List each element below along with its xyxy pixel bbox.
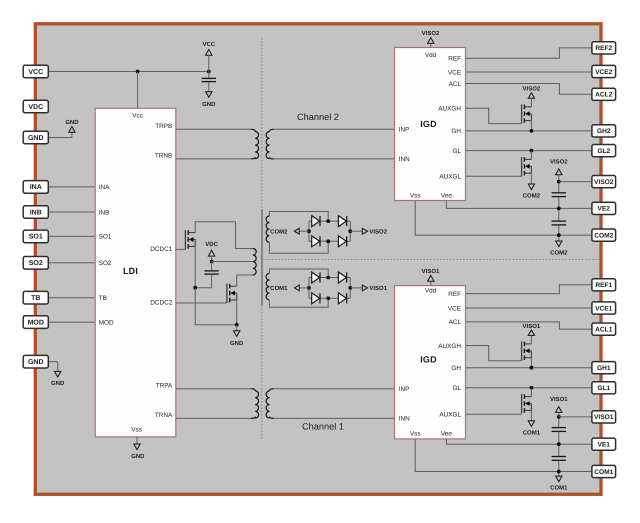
wire VCC to LDI Vcc pin: [137, 72, 139, 109]
junction VDC center tap: [210, 260, 214, 264]
ground symbol COM1 below C6: [550, 476, 568, 492]
capacitor C2 (VDC): [195, 262, 219, 288]
junction bridge2 VISO2 node: [348, 229, 352, 233]
svg-text:ACL: ACL: [449, 81, 462, 88]
svg-text:COM1: COM1: [594, 469, 613, 476]
svg-text:REF1: REF1: [595, 282, 612, 289]
wire Vee to VE2: [446, 201, 592, 209]
svg-text:TRPA: TRPA: [156, 382, 173, 389]
wire GH to GH1: [466, 367, 592, 369]
junction VISO2 rail: [557, 180, 561, 184]
svg-text:Channel 2: Channel 2: [297, 112, 339, 122]
wire bridge 1 top row: [309, 277, 350, 279]
wire bridge 1 bottom row: [309, 297, 350, 299]
svg-text:GND: GND: [230, 340, 244, 347]
svg-text:VISO1: VISO1: [422, 268, 440, 275]
pin GL1 (right terminal y=387.8): [592, 382, 616, 394]
wire SO2: [48, 262, 95, 264]
svg-text:VDC: VDC: [205, 241, 218, 248]
svg-text:VISO2: VISO2: [594, 179, 614, 186]
pin REF2 (right terminal y=47.9): [592, 42, 616, 54]
wire T1 sec1 top to bridge: [269, 269, 328, 278]
label Channel 1: [302, 422, 344, 432]
wire T3 to IGD INP (channel 1): [274, 388, 395, 390]
svg-text:COM1: COM1: [270, 285, 288, 292]
label Channel 2: [297, 112, 339, 122]
junction VE2 rail: [557, 207, 561, 211]
pin COM2 (right terminal y=235.1): [592, 229, 616, 241]
svg-text:VISO2: VISO2: [550, 158, 568, 165]
pin GH2 (right terminal y=130.9): [592, 125, 616, 137]
capacitor C6 (VE1-COM1): [552, 457, 566, 461]
svg-text:Vss: Vss: [410, 192, 421, 199]
junction Q4 drain / GL2: [530, 149, 534, 153]
pin MOD (left terminal y=322.1): [23, 316, 48, 329]
svg-text:GND: GND: [131, 453, 145, 460]
diode D7: [312, 293, 320, 304]
svg-text:Vcc: Vcc: [132, 112, 143, 119]
svg-text:INN: INN: [399, 416, 410, 423]
pin VE2 (right terminal y=208.4): [592, 202, 616, 214]
wire VDC to T1 center tap: [212, 261, 253, 263]
wire GL to GL2: [466, 150, 592, 152]
ground symbol below LDI Vss: [131, 444, 145, 460]
wire DCDC2 gate: [176, 302, 227, 304]
pin INA (left terminal y=186.9): [23, 181, 48, 194]
wire C5 to VE1 rail: [558, 432, 560, 457]
net arrow VISO2 (bridge 2 positive output): [350, 228, 387, 235]
svg-text:SO1: SO1: [99, 234, 112, 241]
svg-text:DCDC1: DCDC1: [150, 246, 172, 253]
wire TRPB: [176, 128, 251, 130]
device boundary (gate driver package outline): [35, 24, 601, 495]
svg-text:Vdd: Vdd: [425, 52, 437, 59]
svg-text:GH: GH: [451, 128, 461, 135]
svg-text:VISO1: VISO1: [369, 285, 387, 292]
junction bridge2 COM2 node: [307, 229, 311, 233]
ground symbol COM2 below C4: [550, 241, 568, 257]
pin GND (left terminal y=137.5): [23, 131, 48, 144]
svg-text:IGD: IGD: [420, 355, 437, 365]
svg-text:GL: GL: [452, 148, 461, 155]
svg-text:INN: INN: [399, 156, 410, 163]
pin VE1 (right terminal y=444.2): [592, 438, 616, 450]
transistor Q1 (push-pull high): [185, 230, 195, 249]
junction bridge1 COM1 node: [307, 286, 311, 290]
capacitor C5 (VISO1-VE1): [552, 428, 566, 432]
wire VISO1 rail upper: [558, 412, 560, 427]
VISO2 power symbol at Q3: [523, 86, 541, 99]
transformer T1 primary: [253, 249, 256, 275]
diode D5: [312, 272, 320, 283]
pin GL2 (right terminal y=150.6): [592, 145, 616, 157]
svg-text:GND: GND: [65, 119, 79, 126]
svg-text:COM2: COM2: [523, 193, 541, 200]
wire VCE (channel 2): [466, 71, 592, 73]
wire Q3 drain to VISO2: [530, 98, 532, 107]
svg-text:VCC: VCC: [28, 69, 43, 76]
svg-text:GH: GH: [451, 365, 461, 372]
svg-text:REF2: REF2: [595, 45, 612, 52]
diode D1: [312, 216, 320, 227]
wire bridge 1 right leg: [349, 278, 351, 299]
svg-text:Vee: Vee: [441, 192, 452, 199]
svg-text:VE2: VE2: [598, 206, 611, 213]
junction VCC/LDI Vcc: [136, 70, 140, 74]
ground symbol below C1: [202, 92, 216, 108]
wire bridge 2 top row: [309, 220, 350, 222]
svg-text:COM2: COM2: [550, 250, 568, 257]
wire TRPA: [176, 388, 251, 390]
transistor Q5 (AUXGH channel 1): [522, 341, 532, 360]
wire VCE (channel 1): [466, 307, 592, 309]
wire REF (channel 1): [466, 285, 592, 294]
wire T1 sec2 bottom to bridge: [269, 241, 328, 253]
svg-text:GND: GND: [202, 101, 216, 108]
junction C2/ground rail: [193, 286, 197, 290]
svg-text:TRNB: TRNB: [155, 153, 172, 160]
transformer T2 primary (channel 2): [251, 129, 259, 159]
svg-text:TB: TB: [31, 295, 40, 302]
VISO2 power symbol at C3: [550, 158, 568, 174]
svg-text:COM2: COM2: [270, 229, 288, 236]
wire VISO2 to pin box: [559, 181, 592, 183]
wire REF (channel 2): [466, 48, 592, 58]
wire GL to GL1: [466, 387, 592, 389]
svg-text:MOD: MOD: [28, 319, 44, 326]
svg-text:VCC: VCC: [202, 41, 215, 48]
pin VCE2 (right terminal y=71.5): [592, 65, 616, 77]
junction bridge2 AC top: [326, 219, 330, 223]
pin GH1 (right terminal y=367.7): [592, 362, 616, 374]
transistor Q6 (AUXGL channel 1): [522, 394, 532, 413]
wire Vee to VE1: [446, 439, 592, 444]
VCC power symbol: [202, 41, 215, 72]
wire T1 primary bottom to Q2 drain: [237, 275, 253, 286]
junction VE1 rail: [557, 442, 561, 446]
wire Vss to COM2: [415, 201, 592, 236]
svg-text:GND: GND: [28, 359, 44, 366]
wire bridge 2 left leg: [308, 221, 310, 241]
ground symbol GND (top left): [65, 119, 79, 132]
svg-text:INA: INA: [30, 184, 42, 191]
svg-text:VISO1: VISO1: [550, 396, 568, 403]
svg-text:REF: REF: [448, 56, 461, 63]
svg-text:TB: TB: [99, 295, 107, 302]
svg-text:VDC: VDC: [28, 104, 43, 111]
wire C6 to COM1 rail: [558, 461, 560, 477]
diode D6: [338, 272, 346, 283]
svg-text:VE1: VE1: [598, 442, 611, 449]
svg-text:GL2: GL2: [597, 148, 610, 155]
wire GND pin to ground: [48, 132, 72, 137]
svg-text:ACL1: ACL1: [595, 326, 613, 333]
wire LDI Vss to ground: [136, 437, 138, 444]
svg-text:DCDC2: DCDC2: [150, 300, 172, 307]
junction VISO1 rail: [557, 415, 561, 419]
wire DCDC1 gate: [176, 248, 186, 250]
svg-text:GH1: GH1: [597, 365, 611, 372]
wire GH to GH2: [466, 130, 592, 132]
VISO1 power symbol at Q5: [523, 323, 541, 336]
channel separator (horizontal dotted): [262, 259, 601, 261]
wire Q5 source to GH: [530, 358, 532, 368]
svg-text:ACL: ACL: [449, 319, 462, 326]
pin VCE1 (right terminal y=308.0): [592, 302, 616, 314]
junction Q5 source / GH1: [530, 366, 534, 370]
svg-text:GND: GND: [51, 380, 65, 387]
svg-text:VISO1: VISO1: [594, 414, 614, 421]
wire Q1 source to ground rail: [194, 246, 196, 287]
wire VISO1 to pin box: [559, 416, 592, 418]
svg-text:INA: INA: [99, 184, 110, 191]
net arrow COM2 (bridge 2 negative output): [270, 228, 309, 235]
svg-text:COM2: COM2: [594, 232, 613, 239]
svg-text:INP: INP: [399, 386, 410, 393]
wire AUXGH (channel 2): [466, 108, 522, 123]
diode D2: [338, 216, 346, 227]
pin SO2 (left terminal y=262.8): [23, 257, 48, 270]
transformer T3 secondary (channel 1): [266, 389, 274, 419]
wire T2 to IGD INN (channel 2): [274, 158, 395, 160]
transistor Q3 (AUXGH channel 2): [522, 104, 532, 123]
pin TB (left terminal y=297.7): [23, 291, 48, 304]
svg-text:Vss: Vss: [131, 426, 142, 433]
svg-text:AUXGL: AUXGL: [439, 174, 461, 181]
wire MOD: [48, 321, 95, 323]
wire Q3 source to GH: [530, 121, 532, 131]
wire C3 to VE2 rail: [558, 197, 560, 221]
pin ACL2 (right terminal y=94.3): [592, 88, 616, 100]
svg-text:GH2: GH2: [597, 128, 611, 135]
svg-text:INB: INB: [30, 209, 42, 216]
junction Q3 source / GH2: [530, 129, 534, 133]
diode D8: [338, 293, 346, 304]
pin SO1 (left terminal y=236.4): [23, 230, 48, 243]
pin VCC (left terminal y=71.5): [23, 65, 48, 78]
transistor Q4 (AUXGL channel 2): [522, 157, 532, 176]
svg-text:REF: REF: [448, 291, 461, 298]
svg-text:VISO2: VISO2: [523, 86, 541, 93]
ground symbol COM1 at Q6: [523, 421, 541, 437]
svg-text:Vss: Vss: [410, 431, 421, 438]
wire ACL (channel 2): [466, 84, 592, 95]
wire Q4 drain to GL: [530, 151, 532, 160]
pin VISO1 (right terminal y=416.9): [592, 411, 616, 423]
svg-text:VISO2: VISO2: [369, 229, 387, 236]
junction Q6 drain / GL1: [530, 386, 534, 390]
diode D4: [338, 236, 346, 247]
wire Vss to COM1: [415, 439, 592, 472]
VISO2 power symbol above U2: [422, 30, 440, 48]
wire GND pin (bottom left) to ground: [48, 362, 57, 372]
wire INB: [48, 211, 95, 213]
wire bridge 2 right leg: [349, 221, 351, 241]
ground symbol GND (bottom left): [51, 371, 65, 387]
net arrow COM1 (bridge 1 negative output): [270, 285, 309, 292]
wire INA: [48, 186, 95, 188]
transformer T1 secondary (channel 2): [266, 216, 269, 242]
svg-text:SO2: SO2: [29, 260, 43, 267]
transformer T3 primary (channel 1): [251, 389, 259, 419]
junction VCC/C1: [207, 70, 211, 74]
diode D3: [312, 236, 320, 247]
transformer T1 secondary (channel 1): [266, 273, 269, 299]
wire C4 to COM2 rail: [558, 225, 560, 241]
op-block U1 LDI (low-voltage driver interface): [95, 108, 176, 437]
wire TRNB: [176, 158, 251, 160]
wire T1 sec2 top to bridge: [269, 212, 328, 222]
wire Q5 drain to VISO1: [530, 335, 532, 344]
wire ACL (channel 1): [466, 322, 592, 329]
net arrow VISO1 (bridge 1 positive output): [350, 285, 387, 292]
VISO1 power symbol at C5: [550, 396, 568, 412]
svg-text:VCE: VCE: [448, 69, 461, 76]
junction bridge1 AC bottom: [326, 296, 330, 300]
wire Q6 source to COM1: [530, 410, 532, 420]
svg-text:VCE2: VCE2: [595, 69, 613, 76]
svg-text:TRPB: TRPB: [155, 123, 172, 130]
pin COM1 (right terminal y=471.5): [592, 465, 616, 477]
svg-text:INB: INB: [99, 209, 110, 216]
transformer T1 core: [261, 209, 263, 305]
transformer T2 secondary (channel 2): [266, 129, 274, 159]
wire Q4 source to COM2: [530, 173, 532, 184]
svg-text:COM1: COM1: [523, 429, 541, 436]
pin INB (left terminal y=212.0): [23, 206, 48, 219]
svg-text:VCE1: VCE1: [595, 305, 613, 312]
svg-text:ACL2: ACL2: [595, 92, 613, 99]
wire Q6 drain to GL: [530, 388, 532, 397]
wire T3 to IGD INN (channel 1): [274, 417, 395, 419]
wire TB: [48, 297, 95, 299]
junction bridge2 AC bottom: [326, 239, 330, 243]
capacitor C4 (VE2-COM2): [552, 221, 566, 225]
capacitor C1 (VCC bypass): [202, 72, 216, 92]
junction COM2 rail: [557, 233, 561, 237]
transistor Q2 (push-pull low): [227, 284, 237, 303]
wire T1 sec1 bottom to bridge: [269, 298, 328, 307]
svg-text:VISO1: VISO1: [523, 323, 541, 330]
pin VDC (left terminal y=106.5): [23, 100, 48, 113]
junction COM1 rail: [557, 470, 561, 474]
svg-text:VCE: VCE: [448, 305, 461, 312]
pin GND (left terminal y=361.7): [23, 355, 48, 368]
VDC power symbol: [205, 241, 218, 261]
pin REF1 (right terminal y=284.8): [592, 279, 616, 291]
svg-text:Channel 1: Channel 1: [302, 422, 344, 432]
svg-text:TRNA: TRNA: [155, 412, 173, 419]
wire SO1: [48, 235, 95, 237]
wire AUXGL (channel 2): [466, 175, 522, 177]
svg-text:Vdd: Vdd: [425, 287, 437, 294]
svg-text:AUXGH: AUXGH: [438, 106, 461, 113]
svg-text:COM1: COM1: [550, 485, 568, 492]
ground symbol COM2 at Q4: [523, 184, 541, 200]
svg-text:Vee: Vee: [441, 431, 452, 438]
svg-text:AUXGL: AUXGL: [439, 412, 461, 419]
svg-text:SO1: SO1: [29, 234, 43, 241]
wire T2 to IGD INP (channel 2): [274, 128, 395, 130]
wire Q2 source to ground: [236, 300, 238, 325]
svg-text:GL: GL: [452, 385, 461, 392]
capacitor C3 (VISO2-VE2): [552, 193, 566, 197]
svg-text:GND: GND: [28, 135, 44, 142]
wire TRNA: [176, 417, 251, 419]
junction bridge1 AC top: [326, 276, 330, 280]
wire Q1 drain to T1 primary top: [195, 222, 253, 249]
wire AUXGL (channel 1): [466, 413, 522, 415]
pin VISO2 (right terminal y=181.6): [592, 176, 616, 188]
svg-text:IGD: IGD: [420, 119, 437, 129]
svg-text:VISO2: VISO2: [422, 30, 440, 37]
junction push-pull ground node: [235, 323, 239, 327]
op-block U2 IGD (isolated gate driver, channel 2): [395, 48, 466, 201]
pin ACL1 (right terminal y=329.1): [592, 323, 616, 335]
wire bridge 2 bottom row: [309, 240, 350, 242]
wire ground rail to Q2 source node: [195, 288, 237, 325]
svg-text:LDI: LDI: [123, 266, 138, 276]
junction bridge1 VISO1 node: [348, 286, 352, 290]
svg-text:AUXGH: AUXGH: [438, 343, 461, 350]
wire bridge 1 left leg: [308, 278, 310, 299]
ground symbol below push-pull: [230, 325, 244, 347]
svg-text:MOD: MOD: [99, 319, 114, 326]
svg-text:INP: INP: [399, 127, 410, 134]
wire AUXGH (channel 1): [466, 346, 522, 361]
isolation barrier (vertical dotted): [261, 38, 263, 440]
wire VCC rail: [48, 71, 209, 73]
VISO1 power symbol above U3: [422, 268, 440, 286]
svg-text:GL1: GL1: [597, 385, 610, 392]
svg-text:SO2: SO2: [99, 260, 112, 267]
op-block U3 IGD (isolated gate driver, channel 1): [395, 286, 466, 439]
wire VISO2 rail upper: [558, 175, 560, 193]
